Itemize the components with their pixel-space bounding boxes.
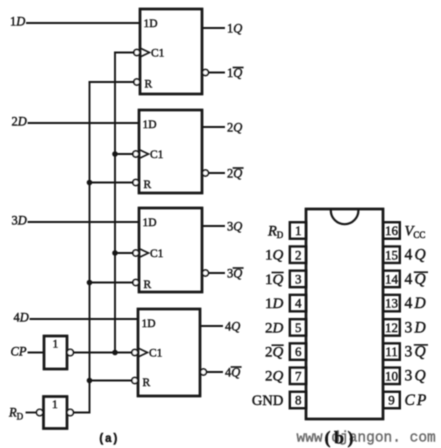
svg-text:4Q: 4Q (405, 271, 428, 288)
bubble 2Qbar output U2 (202, 170, 208, 176)
latch U1 box (140, 9, 202, 94)
svg-text:C1: C1 (151, 48, 165, 60)
dynamic clock triangle U2 (140, 150, 149, 158)
svg-text:3Q: 3Q (227, 219, 242, 233)
wire 3D input (29, 221, 140, 223)
svg-text:1D: 1D (265, 296, 284, 312)
svg-text:1: 1 (53, 339, 59, 351)
pin 10 square (383, 368, 400, 385)
latch U2 box (139, 110, 202, 193)
svg-text:3D: 3D (405, 319, 428, 336)
svg-text:2: 2 (295, 247, 302, 262)
bubble R input U1 (134, 79, 140, 85)
svg-text:GND: GND (252, 393, 283, 409)
inverter G2 (RD buffer) box (44, 397, 68, 429)
bubble 1Qbar output U1 (202, 70, 208, 76)
svg-text:C1: C1 (149, 348, 163, 360)
latch U3 box (139, 208, 202, 292)
svg-text:6: 6 (295, 344, 302, 359)
inverter G1 (CP buffer) box (44, 336, 67, 369)
junction reset bus bottom (87, 378, 93, 384)
svg-text:4D: 4D (405, 295, 428, 312)
svg-text:3D: 3D (12, 213, 27, 227)
bubble G1 output (67, 349, 73, 355)
pin 9 square (383, 392, 400, 409)
svg-text:2Q: 2Q (265, 369, 284, 385)
wire 2D input (29, 122, 140, 124)
wire CP input (29, 352, 45, 354)
dynamic clock triangle U4 (139, 349, 148, 357)
svg-text:1D: 1D (142, 318, 156, 330)
svg-text:2Q: 2Q (227, 120, 242, 134)
svg-text:C1: C1 (150, 149, 164, 161)
svg-text:CP: CP (405, 392, 429, 409)
svg-text:(a): (a) (98, 433, 119, 446)
wire 4Qbar output (207, 371, 223, 373)
bubble R input U4 (132, 378, 138, 384)
bubble 3Qbar output U3 (202, 270, 208, 276)
pin 5 square (290, 319, 307, 336)
svg-text:12: 12 (385, 320, 398, 335)
svg-text:1D: 1D (143, 119, 157, 131)
pin 16 square (383, 222, 400, 239)
svg-text:4Q: 4Q (225, 319, 240, 333)
pin 14 square (383, 271, 400, 288)
svg-text:2Q: 2Q (265, 345, 284, 361)
wire U2 C1 branch (115, 153, 133, 155)
junction reset bus U3 (87, 280, 93, 286)
svg-text:1: 1 (52, 399, 58, 411)
svg-text:1D: 1D (144, 18, 158, 30)
svg-text:R: R (144, 179, 152, 191)
svg-text:R: R (144, 279, 152, 291)
svg-text:8: 8 (295, 393, 302, 408)
svg-text:1D: 1D (10, 14, 25, 28)
svg-text:3: 3 (295, 272, 302, 287)
pin 7 square (290, 368, 307, 385)
wire 2Q output (202, 126, 224, 128)
pin 1 square (290, 222, 307, 239)
wire 3Q output (202, 225, 224, 227)
svg-text:1D: 1D (143, 217, 157, 229)
pin 4 square (290, 295, 307, 312)
bubble R input U3 (133, 280, 139, 286)
svg-text:2D: 2D (12, 114, 27, 128)
wire U1 C1 to clock bus (115, 52, 134, 54)
wire 3Qbar output (209, 272, 225, 274)
svg-text:R: R (145, 78, 153, 90)
wire 1Q output (202, 27, 224, 29)
wire U2 R branch (90, 182, 133, 184)
bubble 4Qbar output U4 (200, 369, 206, 375)
svg-text:www.djangon. com: www.djangon. com (297, 431, 436, 447)
wire 1D input (27, 22, 140, 24)
wire U3 C1 branch (115, 252, 133, 254)
wire reset bus vertical (89, 82, 91, 381)
wire 2Qbar output (209, 172, 225, 174)
junction reset bus U2 (87, 180, 93, 186)
svg-text:R: R (143, 377, 151, 389)
bubble R input U2 (133, 180, 139, 186)
svg-text:1Q: 1Q (227, 21, 242, 35)
svg-text:16: 16 (385, 223, 399, 238)
pin 6 square (290, 343, 307, 360)
bubble C1 input U2 (133, 151, 139, 157)
pin 12 square (383, 319, 400, 336)
wire 1Qbar output (209, 72, 225, 74)
wire U1 R to reset bus (90, 81, 134, 83)
wire RD input (27, 412, 37, 414)
bubble C1 input U3 (133, 250, 139, 256)
dynamic clock triangle U3 (140, 249, 149, 257)
wire 4D input (31, 318, 139, 320)
svg-text:(b): (b) (325, 428, 358, 448)
dynamic clock triangle U1 (141, 49, 150, 57)
bubble C1 input U1 (134, 50, 140, 56)
pin 11 square (383, 343, 400, 360)
svg-text:13: 13 (385, 296, 398, 311)
wire clock bus vertical (114, 53, 116, 353)
svg-text:C1: C1 (150, 248, 164, 260)
bubble G2 output (67, 409, 73, 415)
svg-text:3Q: 3Q (405, 368, 428, 385)
wire G2 output riser to reset bus (73, 381, 89, 413)
pin 15 square (383, 246, 400, 263)
wire 4Q output (200, 325, 222, 327)
latch U4 box (138, 309, 200, 396)
junction clock bus U3 (112, 250, 118, 256)
svg-text:4D: 4D (14, 310, 29, 324)
bubble G2 input (37, 409, 43, 415)
svg-text:11: 11 (385, 344, 398, 359)
svg-text:5: 5 (295, 320, 302, 335)
svg-text:CP: CP (11, 344, 27, 358)
svg-text:1Q: 1Q (265, 272, 284, 288)
svg-text:4: 4 (295, 296, 302, 311)
svg-text:4Q: 4Q (405, 247, 428, 264)
pin 3 square (290, 271, 307, 288)
svg-text:14: 14 (385, 272, 399, 287)
svg-text:3Q: 3Q (405, 344, 428, 361)
wire U3 R branch (90, 282, 133, 284)
svg-text:9: 9 (388, 393, 395, 408)
svg-text:1: 1 (295, 223, 302, 238)
svg-text:2D: 2D (265, 320, 284, 336)
IC body (306, 209, 383, 419)
notch (331, 210, 359, 224)
pin 13 square (383, 295, 400, 312)
svg-text:7: 7 (295, 368, 302, 383)
wire U4 R line (90, 380, 132, 382)
pin 2 square (290, 246, 307, 263)
bubble C1 input U4 (132, 350, 138, 356)
pin 8 square (290, 392, 307, 409)
svg-text:10: 10 (385, 368, 398, 383)
junction clock bus U2 (112, 151, 118, 157)
svg-text:15: 15 (385, 247, 398, 262)
svg-text:1Q: 1Q (265, 248, 284, 264)
junction clock bus bottom (112, 350, 118, 356)
wire G1 output to U4 C1 (73, 352, 131, 354)
